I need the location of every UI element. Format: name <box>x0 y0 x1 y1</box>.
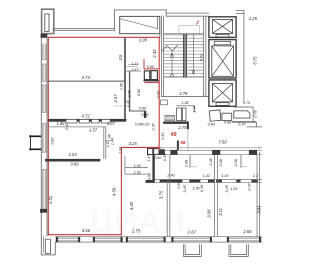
svg-text:1.37: 1.37 <box>107 121 116 126</box>
svg-text:3.08: 3.08 <box>206 209 211 218</box>
thick wall hall/lower room <box>45 159 100 162</box>
wall dark seg c <box>249 150 257 155</box>
niche wall mid <box>48 126 106 128</box>
svg-text:2.25: 2.25 <box>248 16 258 21</box>
elevator shaft 1 <box>209 17 236 38</box>
wall dark seg b <box>212 150 220 155</box>
facade step up <box>113 10 115 31</box>
window center lines (white) <box>43 44 45 210</box>
closet bottom dark band <box>144 80 159 82</box>
corridor left wall <box>176 105 194 107</box>
room 2.75 right wall <box>167 155 170 237</box>
svg-text:3.75: 3.75 <box>159 190 164 199</box>
svg-text:3.60: 3.60 <box>70 162 79 167</box>
door leaf tilted <box>209 110 221 121</box>
svg-text:1.67: 1.67 <box>131 68 139 72</box>
svg-text:2.78: 2.78 <box>178 91 188 96</box>
top roof line <box>114 9 166 11</box>
dim line 7.50 <box>160 147 263 149</box>
junction shaft box b <box>154 149 159 155</box>
svg-text:1.26: 1.26 <box>230 187 238 191</box>
svg-text:1.50: 1.50 <box>120 82 124 90</box>
svg-text:2.03: 2.03 <box>156 90 160 99</box>
rotated dims <box>48 49 261 218</box>
svg-text:2.08: 2.08 <box>234 158 238 167</box>
svg-text:0.43: 0.43 <box>163 153 167 161</box>
svg-text:1.52: 1.52 <box>134 171 141 175</box>
svg-text:2.08: 2.08 <box>184 159 188 168</box>
svg-text:1.44: 1.44 <box>110 138 114 145</box>
svg-text:1.52: 1.52 <box>134 164 141 168</box>
svg-text:4.40: 4.40 <box>129 201 134 210</box>
svg-text:2.40: 2.40 <box>166 174 175 178</box>
svg-text:1.04: 1.04 <box>119 147 123 154</box>
right facade thin wall <box>243 11 245 102</box>
closet dim lines <box>128 63 138 65</box>
svg-text:1.38: 1.38 <box>181 101 189 105</box>
vent box b <box>151 71 157 80</box>
unit separator A/B <box>215 155 218 237</box>
red closet outline left <box>143 59 145 69</box>
stairs <box>164 35 204 77</box>
apt49 red boundary <box>48 37 159 234</box>
svg-text:1.57: 1.57 <box>89 127 98 132</box>
svg-text:4.66: 4.66 <box>82 228 91 233</box>
balcony left <box>183 244 201 256</box>
window fills left wall <box>42 44 47 210</box>
dim ticks <box>48 80 261 236</box>
svg-text:1.96: 1.96 <box>56 121 65 126</box>
left facade wall outer line <box>40 34 42 255</box>
svg-text:3.11: 3.11 <box>218 208 223 216</box>
wall loggia to red <box>159 34 161 38</box>
door rect small <box>222 113 232 120</box>
stair top landing edge <box>164 33 204 35</box>
apt58 walls <box>152 155 154 181</box>
stair landing top outline <box>179 26 200 34</box>
chimney window <box>45 14 49 31</box>
loggia top <box>120 16 160 33</box>
elevator shaft 3 <box>209 80 236 106</box>
unit A partition <box>189 155 191 168</box>
vent box a <box>144 71 150 80</box>
svg-text:2.08: 2.08 <box>219 158 223 167</box>
thick wall room2 bottom <box>48 119 126 122</box>
svg-text:2.53: 2.53 <box>68 152 78 157</box>
svg-text:7.50: 7.50 <box>218 140 227 145</box>
left balcony bracket <box>30 136 41 150</box>
closet wall <box>124 70 141 72</box>
svg-text:3.5: 3.5 <box>118 54 123 60</box>
bottom-left protrusion <box>41 236 55 255</box>
svg-text:1.10: 1.10 <box>126 99 130 107</box>
corridor wall top right <box>234 106 254 108</box>
lower units top wall double line <box>165 149 262 151</box>
svg-text:2.05: 2.05 <box>138 37 148 42</box>
svg-text:2.57: 2.57 <box>113 94 118 104</box>
door rect wide <box>234 111 250 118</box>
dark segs hall wall <box>146 180 155 183</box>
dark block top of left wall <box>41 34 48 38</box>
svg-text:6.75: 6.75 <box>253 56 258 65</box>
stairwell bottom wall <box>162 95 209 97</box>
svg-text:1.42: 1.42 <box>203 174 210 178</box>
svg-text:1.15: 1.15 <box>131 62 139 66</box>
stairwell right wall <box>203 16 205 96</box>
dark wall under hatch <box>163 121 187 124</box>
wall stub below red top line <box>124 37 126 47</box>
svg-text:0.45: 0.45 <box>225 184 229 192</box>
svg-text:3.06: 3.06 <box>128 89 132 97</box>
svg-text:3.02: 3.02 <box>200 54 204 61</box>
svg-text:0.75: 0.75 <box>243 101 251 105</box>
svg-text:0.45: 0.45 <box>183 184 187 192</box>
niche box right of red <box>161 100 168 105</box>
svg-text:0.52: 0.52 <box>142 123 149 127</box>
top-left facade double line <box>53 28 114 30</box>
svg-text:2.67: 2.67 <box>187 230 197 235</box>
svg-text:5.01: 5.01 <box>48 196 53 204</box>
dimension texts <box>56 16 258 235</box>
stair arrow down-right <box>192 35 195 75</box>
closet fronts below wall <box>66 119 77 123</box>
corridor bottom wall <box>232 121 256 123</box>
stair block top facade double <box>166 12 209 14</box>
bottom facade wall <box>55 237 262 242</box>
svg-text:0.78: 0.78 <box>254 109 258 117</box>
junction dark seg <box>159 149 165 155</box>
hatch window wall mid <box>165 116 175 121</box>
hall bottom wall right units <box>155 178 262 180</box>
svg-text:1.47: 1.47 <box>147 154 151 162</box>
left facade wall inner line <box>46 34 48 236</box>
top-right facade step <box>236 10 244 12</box>
svg-text:2.68: 2.68 <box>242 229 252 234</box>
svg-text:0.89: 0.89 <box>139 106 146 110</box>
svg-text:2.75: 2.75 <box>131 228 141 233</box>
dark wall vertical stub lower <box>177 141 179 151</box>
balcony right <box>229 244 248 256</box>
svg-text:2.78: 2.78 <box>177 125 187 130</box>
svg-text:3.25: 3.25 <box>129 141 138 146</box>
bottom windows <box>56 237 261 242</box>
svg-text:58: 58 <box>180 140 186 145</box>
svg-text:1.43: 1.43 <box>221 174 229 178</box>
stair arrow up-left <box>162 45 179 77</box>
door boxes left <box>177 108 182 121</box>
svg-text:0.42: 0.42 <box>65 123 69 130</box>
red closet outline bottom <box>144 68 159 70</box>
chimney shaft top-left <box>42 9 54 33</box>
red section tick <box>196 20 198 24</box>
dark corner block left wall <box>40 209 47 213</box>
thin wall line down <box>187 129 189 150</box>
svg-text:2.82: 2.82 <box>51 138 55 146</box>
corridor below elevators <box>176 106 262 127</box>
elevator shaft 2 <box>209 40 236 78</box>
svg-text:0.90: 0.90 <box>147 65 155 69</box>
stair flight bottom edge <box>164 77 204 79</box>
svg-text:4.73: 4.73 <box>82 75 91 80</box>
wall segment ticks <box>41 60 47 170</box>
wall between room1 and 2.05 <box>124 37 126 119</box>
svg-text:0.26: 0.26 <box>200 184 204 192</box>
svg-text:4.72: 4.72 <box>82 113 91 118</box>
dark wall vertical stub upper <box>187 121 189 129</box>
svg-text:0.52: 0.52 <box>161 133 165 140</box>
right wall units <box>257 152 259 237</box>
loggia glazing diagonal <box>120 19 157 29</box>
svg-text:0.63: 0.63 <box>177 180 181 188</box>
svg-text:0.84: 0.84 <box>208 123 215 127</box>
svg-text:49: 49 <box>170 132 177 138</box>
stairwell left wall <box>161 16 163 96</box>
svg-text:0.73: 0.73 <box>238 123 246 127</box>
dark stub bath corner <box>144 111 146 118</box>
svg-text:2.2: 2.2 <box>252 174 258 178</box>
wall dark seg a <box>170 150 177 155</box>
svg-text:3.81: 3.81 <box>257 205 262 213</box>
svg-text:4.58: 4.58 <box>112 187 117 196</box>
unit B partition <box>240 155 242 168</box>
svg-text:2.37: 2.37 <box>151 122 155 131</box>
room divider 1 <box>48 80 124 82</box>
junction shaft box a <box>148 149 153 155</box>
svg-text:0.47: 0.47 <box>247 182 251 190</box>
svg-text:0.89: 0.89 <box>141 113 148 117</box>
svg-text:0.88: 0.88 <box>224 121 232 125</box>
red closet outline lower <box>145 82 159 84</box>
apt49 interior <box>48 37 146 159</box>
svg-text:0.50: 0.50 <box>147 172 151 180</box>
red apt numbers <box>170 132 186 145</box>
svg-text:2.08: 2.08 <box>209 157 213 166</box>
svg-text:2.32: 2.32 <box>152 49 157 59</box>
svg-text:1.44: 1.44 <box>193 105 197 112</box>
svg-text:0.60: 0.60 <box>154 156 162 160</box>
stair stringer <box>183 34 187 78</box>
svg-text:0.82: 0.82 <box>137 89 141 96</box>
